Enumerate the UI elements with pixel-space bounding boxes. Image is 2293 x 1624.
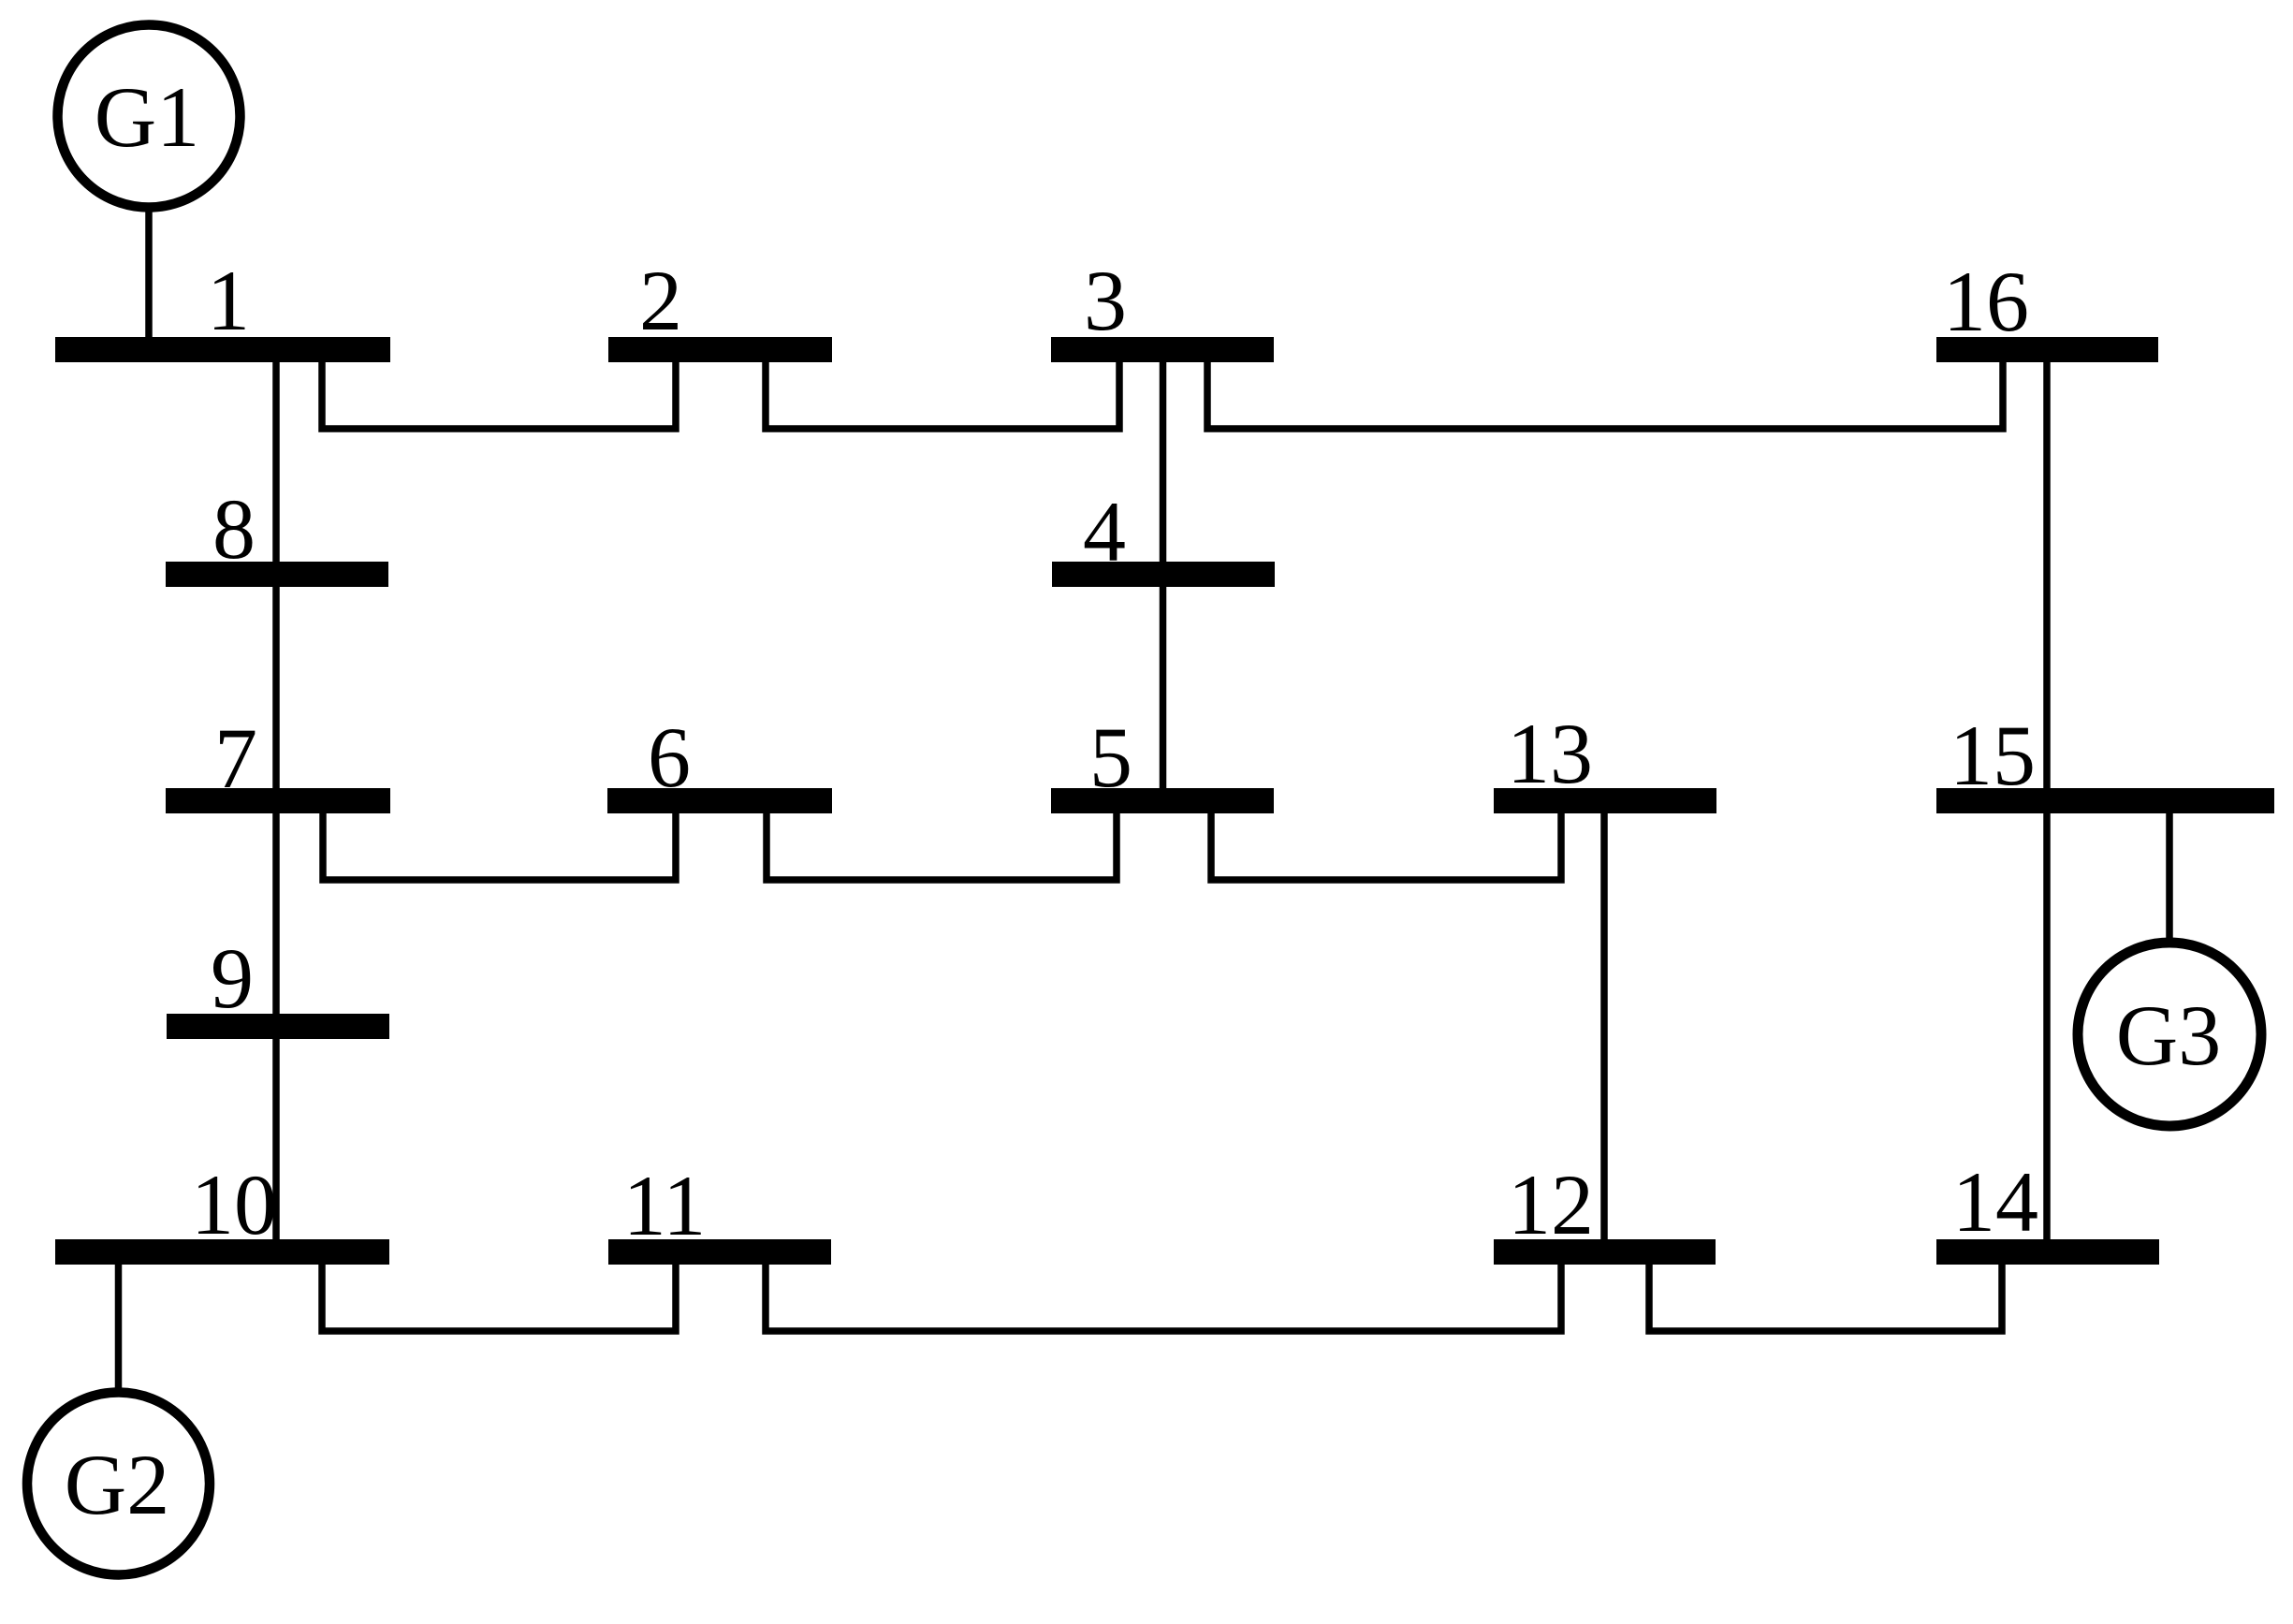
bus 9 (busbar) — [167, 1014, 389, 1039]
wire bus6-bus5 — [767, 809, 1117, 880]
wire bus3-bus16 — [1207, 358, 2003, 429]
wire G1 to bus 1 — [145, 210, 153, 339]
svg-text:G3: G3 — [2116, 988, 2221, 1083]
svg-text:1: 1 — [207, 253, 250, 348]
svg-text:5: 5 — [1089, 710, 1132, 805]
svg-text:10: 10 — [191, 1157, 277, 1252]
svg-text:G2: G2 — [65, 1437, 169, 1532]
svg-text:16: 16 — [1943, 254, 2029, 349]
wire bus1-bus8-bus7-bus9-bus10 vertical spine — [272, 358, 280, 1243]
bus 4 (busbar) — [1052, 562, 1275, 587]
svg-text:2: 2 — [639, 253, 682, 348]
bus 13 (busbar) — [1494, 788, 1716, 813]
wire bus12-bus14 — [1649, 1260, 2002, 1331]
svg-text:8: 8 — [212, 481, 256, 577]
svg-text:G1: G1 — [95, 69, 199, 165]
bus 16 (busbar) — [1936, 337, 2158, 362]
svg-text:14: 14 — [1952, 1154, 2038, 1250]
wire bus10-bus11 — [322, 1260, 676, 1331]
generator G1 — [58, 25, 241, 208]
bus 5 (busbar) — [1051, 788, 1274, 813]
bus 14 (busbar) — [1936, 1239, 2159, 1265]
svg-text:9: 9 — [211, 930, 254, 1026]
wire bus11-bus12 — [766, 1260, 1561, 1331]
generator G3 — [2078, 943, 2261, 1126]
wire bus16-bus15-bus14 vertical — [2043, 358, 2051, 1243]
bus 6 (busbar) — [607, 788, 832, 813]
svg-text:7: 7 — [214, 710, 257, 806]
wire bus5-bus13 — [1211, 809, 1561, 880]
bus 10 (busbar) — [55, 1239, 389, 1265]
svg-text:3: 3 — [1084, 253, 1127, 348]
svg-text:12: 12 — [1508, 1157, 1594, 1252]
wire bus10 to G2 — [115, 1260, 123, 1391]
svg-text:13: 13 — [1507, 706, 1593, 801]
wire bus1-bus2 — [322, 358, 676, 429]
bus 2 (busbar) — [608, 337, 832, 362]
svg-text:11: 11 — [623, 1158, 707, 1253]
wire bus15 to G3 — [2166, 809, 2173, 942]
bus 7 (busbar) — [166, 788, 390, 813]
generator G2 — [27, 1393, 210, 1575]
bus 3 (busbar) — [1051, 337, 1274, 362]
svg-text:6: 6 — [648, 710, 691, 805]
bus 12 (busbar) — [1494, 1239, 1716, 1265]
svg-text:4: 4 — [1083, 484, 1126, 579]
svg-text:15: 15 — [1950, 708, 2036, 803]
wire bus7-bus6 — [323, 809, 676, 880]
bus 11 (busbar) — [608, 1239, 831, 1265]
bus 15 (busbar) — [1936, 788, 2274, 813]
wire bus13-bus12 vertical — [1600, 809, 1608, 1243]
bus 1 (busbar) — [55, 337, 390, 362]
wire bus2-bus3 — [766, 358, 1119, 429]
wire bus3-bus4-bus5 vertical — [1160, 358, 1167, 792]
bus 8 (busbar) — [166, 562, 388, 587]
